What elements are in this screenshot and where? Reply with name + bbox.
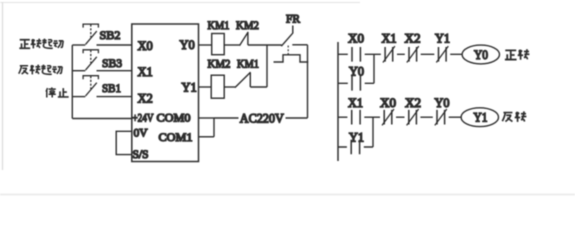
svg-text:SB2: SB2 [100,28,121,42]
PLC box [132,24,199,162]
contact X2 (NC) [407,109,419,125]
svg-text:S/S: S/S [133,149,149,161]
wire AC220V to rail [286,117,308,119]
contact Y0 (NO, parallel) [352,76,360,91]
rung2 wire segs [338,116,461,118]
pushbutton SB3 [83,50,98,70]
junction wire up to Y0 line [266,45,268,87]
svg-text:X0: X0 [348,32,364,46]
wire KM1 coil to KM2 contact [224,44,240,46]
contact X2 (NC) [407,46,419,62]
svg-text:KM2: KM2 [208,57,231,71]
wire Y1 to KM2 coil [199,86,212,88]
contact X0 (NC) [382,109,394,125]
svg-text:Y1: Y1 [474,111,488,125]
contact X1 (NO) [352,110,360,125]
svg-text:KM1: KM1 [208,18,230,32]
label 反转起动 [19,65,62,75]
contact X1 (NC) [383,46,395,62]
COM0 stub [199,117,215,119]
COM bracket vertical [213,118,215,137]
wire FR to right rail [292,44,307,46]
svg-text:KM2: KM2 [236,18,259,32]
svg-text:Y0: Y0 [349,65,364,79]
FR dashed link [287,46,289,55]
COM1 stub [199,136,215,138]
svg-text:X2: X2 [138,92,153,106]
0V to S/S loop [116,131,132,154]
wire X1 row right [97,70,133,72]
svg-text:COM1: COM1 [159,132,193,144]
svg-text:SB1: SB1 [102,81,121,95]
svg-text:FR: FR [286,12,300,26]
label 正转起动 [19,39,63,49]
wire X2 row left [72,96,85,98]
svg-text:Y1: Y1 [349,131,364,145]
svg-text:X1: X1 [138,65,153,79]
FR heater element [274,55,309,62]
coil Y1 [461,108,498,127]
coil Y0 [462,45,499,64]
wire Y0 to KM1 coil [199,44,212,46]
contactor coil KM1 [212,34,225,55]
contact X0 (NO) [352,47,360,62]
svg-text:X0: X0 [138,39,153,53]
svg-text:Y1: Y1 [182,81,197,95]
wire KM2 contact to FR [248,44,282,46]
wire X0 row right [97,44,133,46]
contact Y1 (NO, parallel) [351,140,359,155]
contactor coil KM2 [211,75,224,98]
branch1 wire [338,82,374,84]
NC contact KM2 (interlock) [240,32,249,46]
svg-text:COM0: COM0 [157,113,191,125]
right rail [307,45,309,118]
wire +24V from bus [72,118,132,120]
svg-text:SB3: SB3 [102,56,122,70]
svg-text:X2: X2 [405,96,421,110]
thermal relay FR contact [281,26,293,47]
svg-text:X2: X2 [405,32,421,46]
svg-text:Y0: Y0 [180,38,195,52]
svg-text:X0: X0 [380,96,396,110]
pushbutton SB2 [83,24,98,44]
label 停止 [46,87,69,97]
wire X2 row right [97,96,133,98]
wire COM0 to AC220V [214,117,239,119]
contact Y1 (NC) [436,46,448,62]
svg-text:+24V: +24V [133,113,155,125]
branch2 wire [338,146,373,148]
svg-text:KM1: KM1 [237,57,259,71]
svg-text:Y0: Y0 [474,48,488,62]
pushbutton SB1 [83,76,98,96]
left power rail [337,42,339,161]
svg-text:X1: X1 [348,96,363,110]
wire X0 row left [72,44,85,46]
svg-text:X1: X1 [382,32,397,46]
label 反转 [502,111,526,122]
wire KM1 contact to junction [250,86,267,88]
NC contact KM1 (interlock) [235,72,251,88]
label 正转 [505,49,530,60]
branch2 join vertical [372,117,374,147]
svg-text:0V: 0V [134,128,149,140]
svg-text:Y1: Y1 [435,32,450,46]
branch1 join vertical [373,54,375,83]
rung1 wire segs [338,53,462,55]
contact Y0 (NC) [435,109,447,125]
svg-text:AC220V: AC220V [240,112,284,126]
svg-text:Y0: Y0 [435,96,450,110]
wire X1 row left [72,70,85,72]
common bus vertical [71,45,73,119]
wire KM2 coil to KM1 contact [224,86,235,88]
